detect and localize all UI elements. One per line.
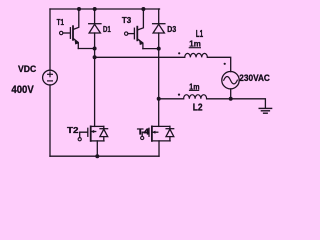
svg-text:230VAC: 230VAC bbox=[239, 73, 270, 83]
junction T1 emitter on left leg node A bbox=[93, 47, 97, 51]
wire L1 to AC bbox=[207, 57, 230, 71]
svg-text:D1: D1 bbox=[103, 24, 111, 34]
polarity dot L1 bbox=[178, 52, 180, 54]
svg-text:D3: D3 bbox=[167, 24, 176, 34]
junction AC source bottom on return rail bbox=[229, 97, 233, 101]
wire left vertical lower bbox=[49, 85, 51, 156]
svg-text:L2: L2 bbox=[193, 102, 203, 113]
wire top rail bbox=[50, 8, 160, 10]
svg-text:T2: T2 bbox=[67, 125, 79, 135]
wire output rail 1 to L1 bbox=[95, 56, 185, 58]
junction T2 emitter on bottom rail bbox=[95, 154, 99, 158]
wire AC bottom bbox=[230, 89, 232, 99]
source VDC bbox=[43, 70, 58, 85]
transistor T2 bbox=[78, 126, 104, 140]
junction L2 output tap on right leg node B bbox=[157, 97, 161, 101]
polarity dot AC source bbox=[224, 63, 226, 65]
svg-text:T1: T1 bbox=[57, 17, 65, 27]
polarity dot L2 bbox=[178, 94, 180, 96]
transistor T4 bbox=[141, 126, 171, 140]
source 230VAC bbox=[222, 72, 239, 89]
wire left leg bbox=[94, 33, 96, 126]
junction D1 cathode on top rail bbox=[93, 7, 97, 11]
svg-text:T3: T3 bbox=[122, 15, 132, 25]
ground bbox=[259, 108, 271, 113]
diode D3 bbox=[153, 9, 165, 33]
junction T3 emitter on right leg node B bbox=[157, 47, 161, 51]
wire right leg bbox=[158, 33, 160, 126]
diode D4 bbox=[166, 126, 174, 140]
wire output rail 2 to L2 bbox=[159, 98, 184, 100]
wire T2 emitter to bottom rail bbox=[96, 141, 98, 156]
diode D1 bbox=[89, 9, 101, 33]
svg-text:1m: 1m bbox=[189, 39, 201, 49]
wire L2 to ground bbox=[207, 99, 266, 108]
wire T4 emitter to bottom rail bbox=[158, 141, 160, 156]
svg-text:400V: 400V bbox=[11, 84, 33, 96]
wire left vertical upper bbox=[49, 9, 51, 70]
junction L1 output tap on left leg node A bbox=[93, 55, 97, 59]
junction T1 collector on top rail bbox=[77, 7, 81, 11]
junction T3 collector on top rail bbox=[141, 7, 145, 11]
inductor L1 bbox=[185, 53, 208, 57]
svg-text:T4: T4 bbox=[137, 127, 150, 137]
wire bottom rail bbox=[50, 155, 159, 157]
diode D2 bbox=[100, 126, 108, 140]
svg-text:VDC: VDC bbox=[18, 64, 36, 74]
inductor L2 bbox=[184, 95, 207, 99]
transistor T3 bbox=[125, 10, 159, 49]
transistor T1 bbox=[60, 10, 95, 49]
